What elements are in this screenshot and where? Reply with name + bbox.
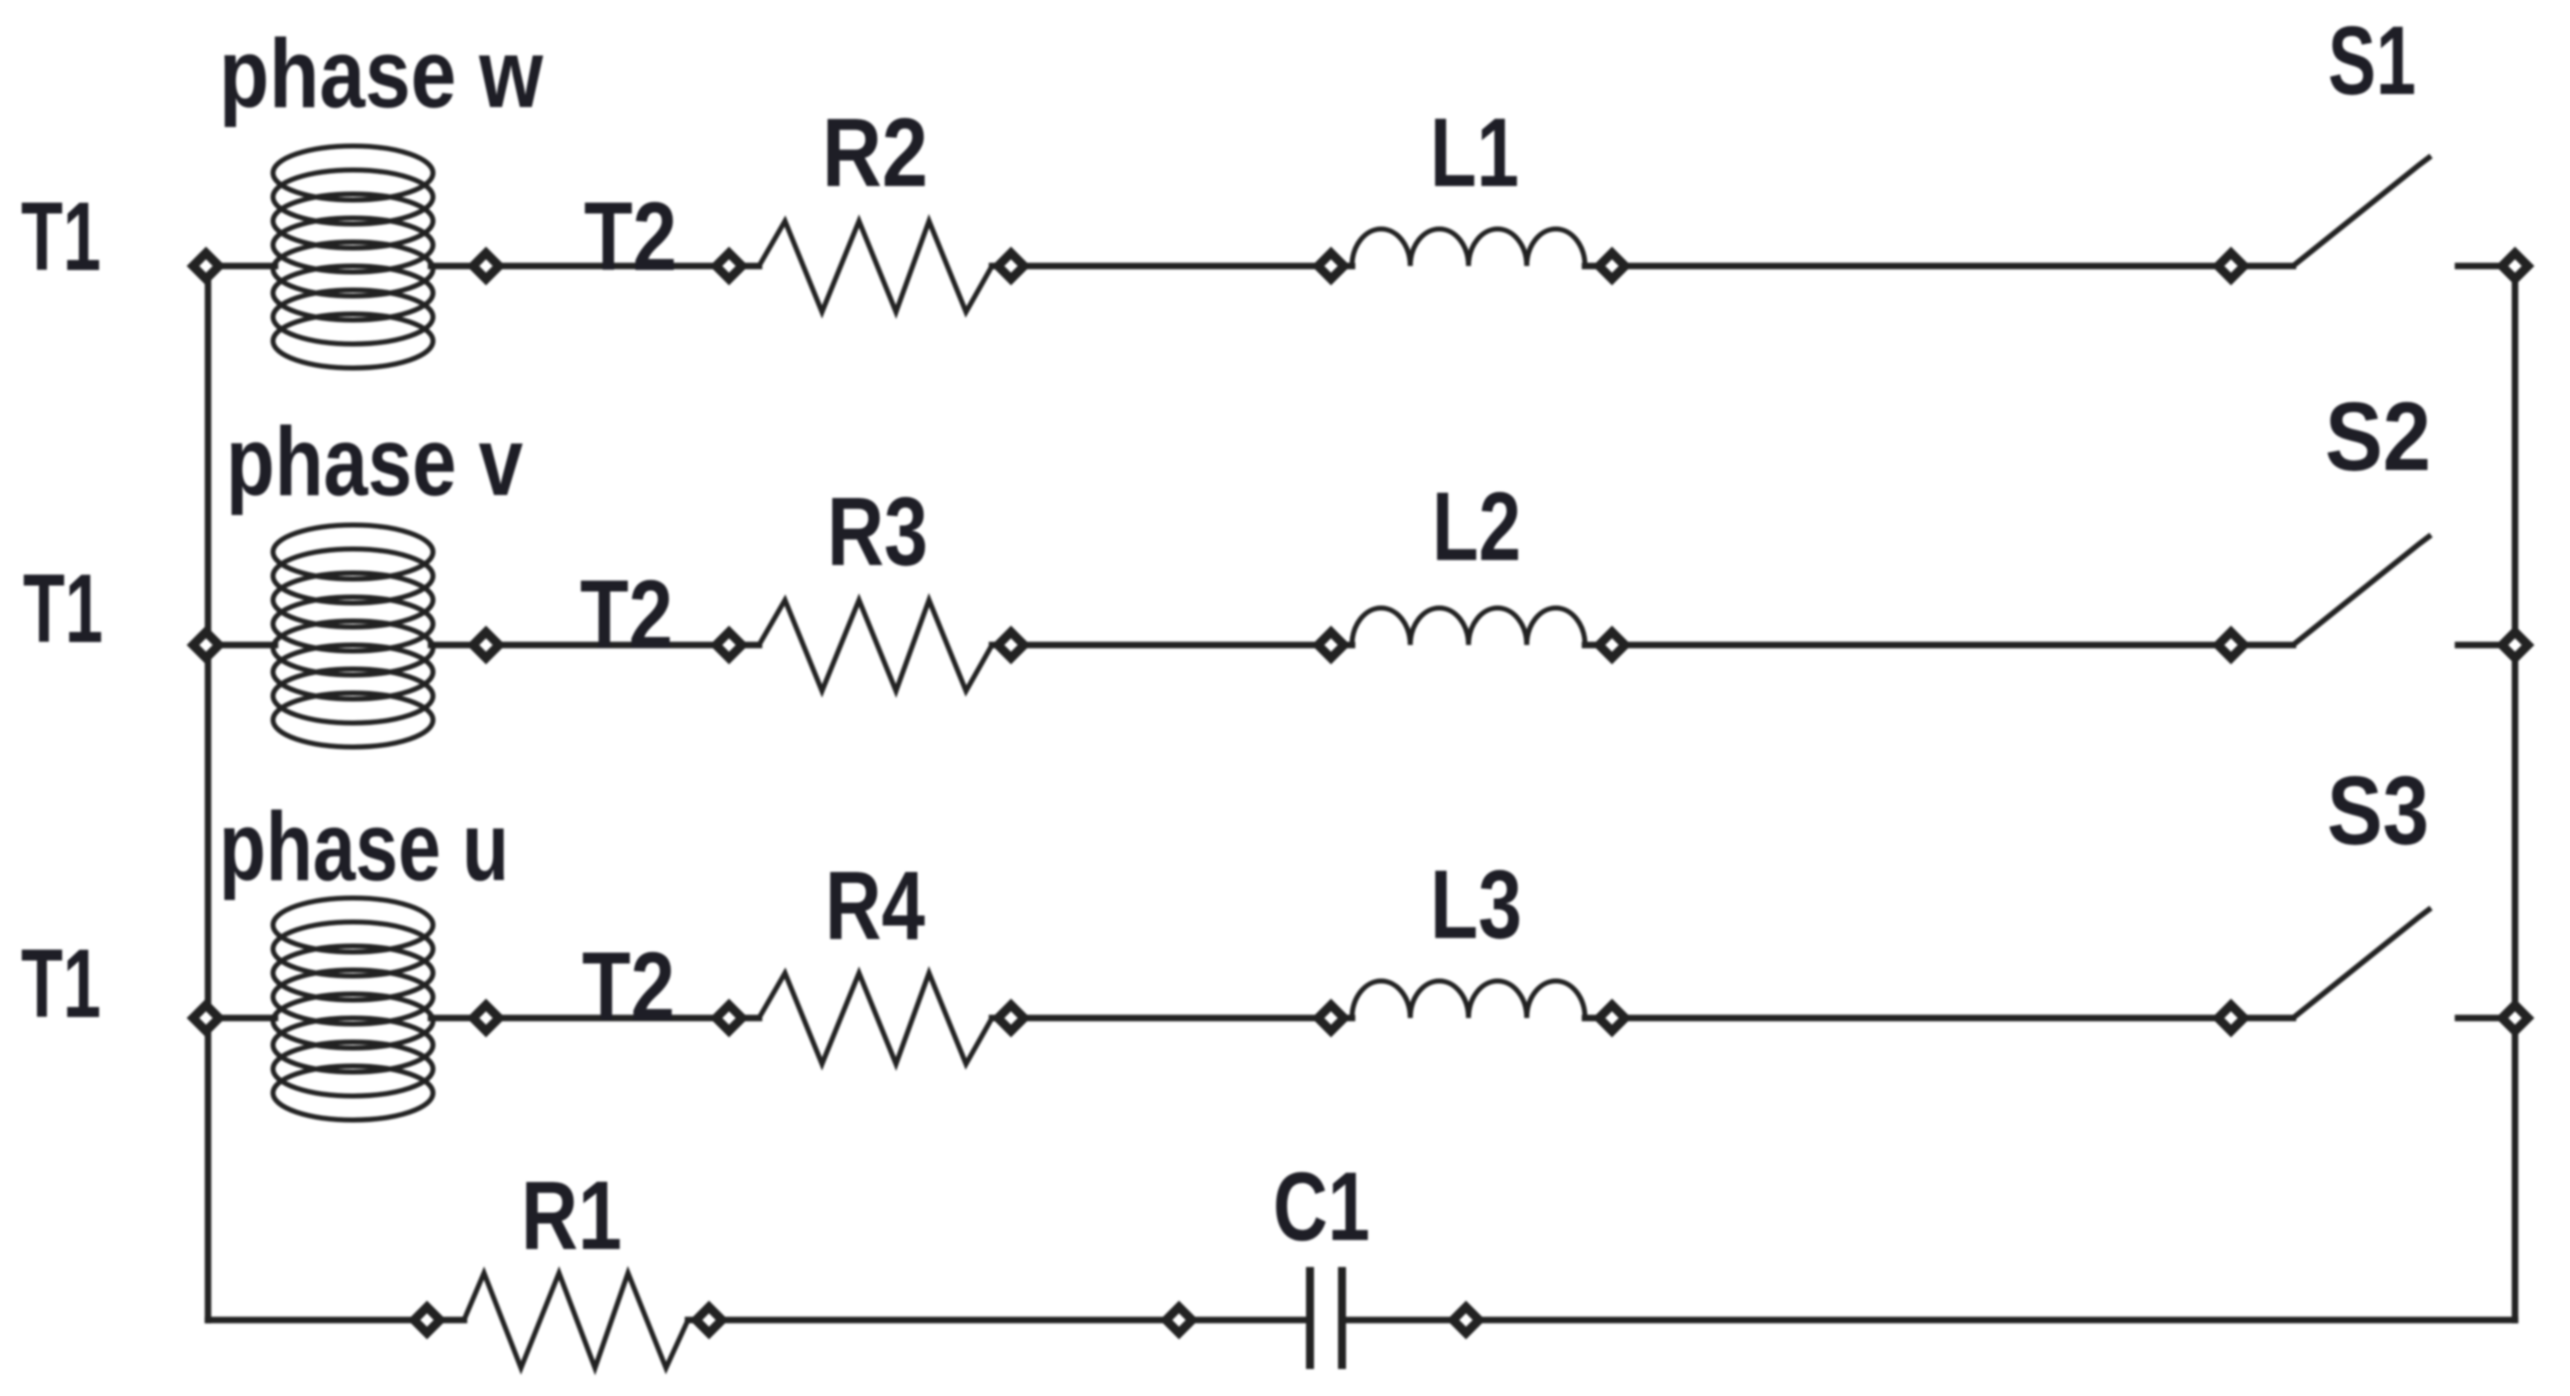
resistor R1 xyxy=(464,1273,688,1368)
node winding-T2 row 1 xyxy=(473,253,499,279)
node right bus row 2 xyxy=(2502,632,2528,658)
svg-text:L1: L1 xyxy=(1430,98,1519,207)
inductor L2 xyxy=(1352,608,1585,645)
wire bottom: R1 to C1 left plate xyxy=(688,1317,1309,1324)
svg-text:S3: S3 xyxy=(2327,756,2429,865)
node after R4 xyxy=(998,1005,1024,1031)
wire bottom: C1 right plate to right bus xyxy=(1343,1317,2515,1324)
wire: left vertical bus xyxy=(205,266,212,1320)
svg-text:R1: R1 xyxy=(521,1161,622,1270)
svg-text:T1: T1 xyxy=(21,182,101,291)
resistor R4 xyxy=(759,973,992,1064)
wire row 3: switch stub to right bus xyxy=(2458,1015,2515,1022)
svg-text:S2: S2 xyxy=(2325,382,2431,491)
wire row 1: resistor to inductor xyxy=(992,263,1352,270)
inductor L3 xyxy=(1352,981,1585,1018)
svg-text:L2: L2 xyxy=(1432,472,1521,581)
node after L3 xyxy=(1599,1005,1625,1031)
node before C1 xyxy=(1166,1307,1192,1333)
svg-text:phase w: phase w xyxy=(219,19,543,128)
node winding-T2 row 3 xyxy=(473,1005,499,1031)
switch S3 xyxy=(2293,908,2431,1018)
node before R1 xyxy=(414,1307,440,1333)
switch S1 xyxy=(2293,156,2431,266)
node after R1 xyxy=(696,1307,722,1333)
node before S2 xyxy=(2218,632,2244,658)
node T1 row 2 xyxy=(193,632,219,658)
wire row 1: switch stub to right bus xyxy=(2458,263,2515,270)
node right bus row 3 xyxy=(2502,1005,2528,1031)
wire row 2: switch stub to right bus xyxy=(2458,642,2515,649)
resistor R2 xyxy=(759,221,992,312)
switch S2 xyxy=(2293,535,2431,645)
inductor L1 xyxy=(1352,229,1585,266)
svg-text:phase v: phase v xyxy=(226,407,523,516)
node T1 row 3 xyxy=(193,1005,219,1031)
wire row 2: winding to resistor xyxy=(431,642,759,649)
wire row 3: bus to winding xyxy=(208,1015,275,1022)
node after R2 xyxy=(998,253,1024,279)
node before S1 xyxy=(2218,253,2244,279)
node T1 row 1 xyxy=(193,253,219,279)
svg-text:R4: R4 xyxy=(825,851,925,960)
svg-text:T1: T1 xyxy=(21,929,101,1038)
capacitor C1 left plate xyxy=(1306,1267,1314,1369)
svg-text:C1: C1 xyxy=(1273,1152,1370,1261)
node before R3 xyxy=(716,632,742,658)
svg-text:phase u: phase u xyxy=(219,792,509,901)
node right bus row 1 xyxy=(2502,253,2528,279)
node before R4 xyxy=(716,1005,742,1031)
transformer winding T1-T2 (phase u) xyxy=(273,898,433,1120)
wire row 3: inductor to switch xyxy=(1585,1015,2293,1022)
wire row 3: winding to resistor xyxy=(431,1015,759,1022)
node after R3 xyxy=(998,632,1024,658)
wire row 2: resistor to inductor xyxy=(992,642,1352,649)
wire row 1: winding to resistor xyxy=(431,263,759,270)
wire row 1: inductor to switch xyxy=(1585,263,2293,270)
svg-text:T2: T2 xyxy=(584,182,677,291)
wire row 3: resistor to inductor xyxy=(992,1015,1352,1022)
svg-text:T2: T2 xyxy=(580,560,673,669)
wire: right vertical bus xyxy=(2512,266,2519,1320)
transformer winding T1-T2 (phase v) xyxy=(273,525,433,747)
svg-text:T2: T2 xyxy=(582,932,675,1041)
node before R2 xyxy=(716,253,742,279)
capacitor C1 right plate xyxy=(1338,1267,1346,1369)
svg-text:R3: R3 xyxy=(827,477,928,586)
node after L1 xyxy=(1599,253,1625,279)
node after C1 xyxy=(1453,1307,1479,1333)
svg-text:T1: T1 xyxy=(23,554,103,663)
node before L1 xyxy=(1318,253,1344,279)
resistor R3 xyxy=(759,600,992,691)
node winding-T2 row 2 xyxy=(473,632,499,658)
wire row 1: bus to winding xyxy=(208,263,275,270)
transformer winding T1-T2 (phase w) xyxy=(273,146,433,368)
wire bottom: left bus to R1 xyxy=(208,1317,464,1324)
svg-text:S1: S1 xyxy=(2328,6,2416,115)
node after L2 xyxy=(1599,632,1625,658)
wire row 2: bus to winding xyxy=(208,642,275,649)
node before S3 xyxy=(2218,1005,2244,1031)
node before L2 xyxy=(1318,632,1344,658)
svg-text:R2: R2 xyxy=(822,98,928,207)
wire row 2: inductor to switch xyxy=(1585,642,2293,649)
svg-text:L3: L3 xyxy=(1430,850,1522,959)
node before L3 xyxy=(1318,1005,1344,1031)
